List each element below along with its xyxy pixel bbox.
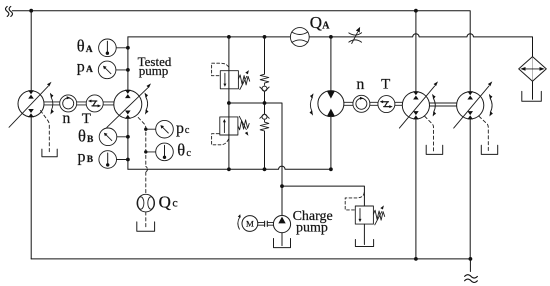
shaft: M to charge pump with coupling (258, 221, 274, 226)
svg-text:pump: pump (296, 220, 328, 235)
wire: tested pump bottom port vertical down to B-line corner (127, 118, 129, 169)
node: pA tap (126, 68, 130, 72)
control arc: tested pump over-center arc (145, 93, 149, 115)
wire: B-side return line y=169.3 with hop over charge line (128, 166, 331, 169)
wire: charge cross line y=103 (229, 103, 282, 216)
pump P4 (right pair, variable over-center) (454, 81, 493, 128)
svg-text:T: T (82, 111, 91, 127)
svg-text:c: c (172, 196, 177, 210)
svg-text:B: B (87, 155, 94, 165)
check valve CV1 (makeup to A line) (260, 74, 269, 91)
node: bottom line / pump B vertical (469, 257, 473, 261)
node: B line / relief2 (227, 167, 231, 171)
svg-text:M: M (246, 219, 254, 229)
tank: charge relief tank (355, 240, 373, 247)
gauge pressure pA (98, 61, 128, 79)
node: pB tap (126, 158, 130, 162)
wire: left vertical from loading pump to bottom line (30, 117, 32, 259)
svg-text:B: B (87, 135, 94, 145)
tank: Qc drain tank (137, 222, 155, 231)
sensor T (torque) right (378, 96, 395, 113)
node: B line / check2 (263, 167, 267, 171)
wire: cooler branch vertical (532, 81, 534, 99)
svg-text:p: p (176, 120, 184, 137)
gauge pressure θB (99, 128, 128, 146)
drain wire: loading pump case drain (dashed) (41, 111, 50, 154)
svg-text:Q: Q (310, 13, 322, 32)
wire: bottom return line y=258.9 (31, 258, 470, 260)
wire: right pump A vertical (top & bottom) (415, 11, 417, 259)
tank: pump P4 drain tank (481, 145, 497, 154)
relief valve RV2 (B-side cross-port relief) (220, 116, 249, 135)
node: pC tap (144, 128, 147, 131)
svg-text:c: c (185, 125, 190, 136)
svg-text:θ: θ (177, 141, 185, 160)
svg-text:A: A (322, 21, 330, 32)
drain wire: pump P4 (dashed) (479, 116, 488, 152)
node: top line / left vertical junction (29, 9, 33, 13)
svg-text:Q: Q (159, 192, 171, 211)
wire: second (A-side) line y=36.9 from tested-pump corner to cooler corner with hops (128, 34, 533, 57)
node: relief line / cross line (227, 101, 231, 105)
pump P5 charge pump (273, 216, 290, 246)
wire: right pump B vertical (bottom) (469, 119, 471, 259)
wire: motor top vertical (330, 37, 332, 91)
svg-text:p: p (78, 148, 86, 165)
shaft: loading pump to sensors to tested pump (double line) (44, 102, 114, 105)
wire: left vertical from top line to loading pump (30, 11, 32, 91)
pump P1 loading pump (variable, over-center) (9, 82, 54, 128)
tank: charge pump suction tank (274, 239, 291, 248)
cooler / heat exchanger (519, 57, 547, 82)
continuation squiggle top-left (6, 6, 13, 16)
node: θA tap (126, 46, 130, 50)
sensor n (speed) left (60, 95, 77, 112)
svg-text:n: n (356, 76, 364, 93)
node: charge vertical / charge-relief tap (280, 184, 284, 188)
svg-text:c: c (186, 148, 191, 159)
node: bottom line / pump A vertical (414, 257, 418, 261)
node: B line / motor bottom (329, 167, 333, 171)
wire: check branch vertical x=264.5 (broken at ball symbols) (264, 37, 266, 169)
wire: tested pump top port vertical (127, 37, 129, 91)
pump P3 (right pair, variable over-center) (399, 81, 438, 128)
pilot wire RV1 (dashed) (212, 63, 229, 75)
node: θB tap (126, 135, 130, 139)
svg-text:θ: θ (77, 36, 85, 55)
sensor n (speed) right (353, 95, 370, 112)
wire: relief branch vertical x=228.9 (228, 37, 230, 169)
node: second line / check branch (263, 35, 267, 39)
node: second line / relief branch (227, 35, 231, 39)
svg-text:T: T (381, 77, 390, 93)
relief valve RV1 (A-side cross-port relief) (220, 70, 249, 89)
gauge thermometer pB (99, 151, 128, 169)
node: θC tap (144, 150, 147, 153)
pump P2 tested pump (variable, over-center) (107, 83, 151, 127)
svg-text:p: p (77, 58, 85, 75)
electric motor M (charge pump drive) (238, 214, 258, 231)
tank: cooler outlet tank (522, 91, 542, 101)
throttle valve (variable restrictor) (349, 27, 362, 44)
svg-text:n: n (62, 110, 70, 127)
flow meter Qc (137, 194, 155, 212)
tank: pump P3 drain tank (426, 145, 443, 154)
pilot wire RV3 (dashed) (345, 193, 364, 210)
wire: RV3 to tank (363, 224, 365, 244)
svg-text:A: A (86, 45, 93, 55)
svg-text:pump: pump (139, 63, 169, 78)
drain wire: tested pump case drain (dashed) to flow meter Qc (138, 118, 147, 230)
drain wire: pump P3 (dashed) (425, 116, 434, 152)
sensor T (torque) left (86, 95, 103, 112)
gauge thermometer θC on drain (146, 143, 174, 161)
motor M1 (fixed displacement, bidirectional) (310, 91, 344, 117)
gauge pressure pC on drain (146, 120, 174, 138)
continuation squiggle bottom-right (465, 275, 478, 283)
tank: loading pump drain tank (42, 149, 57, 157)
shaft: motor to sensors to pump A (double line) (344, 102, 457, 106)
check valve CV2 (makeup to B line) (260, 114, 269, 131)
wire: charge relief feed line y=186.1 (282, 186, 364, 206)
wire: top supply line y=10.7 (12, 11, 470, 92)
node: top line / right pump A vertical junction (414, 9, 418, 13)
wire: pump B stub below bottom line (469, 259, 471, 272)
relief valve RV3 (charge relief) (355, 205, 384, 224)
node: second line / motor branch (329, 35, 333, 39)
flow meter QA (290, 28, 309, 47)
pilot wire RV2 (dashed) (212, 134, 229, 145)
node: check line / cross line (263, 101, 267, 105)
gauge thermometer θA (99, 39, 128, 57)
svg-text:A: A (86, 65, 93, 75)
wire: motor bottom vertical (330, 117, 332, 169)
svg-text:θ: θ (78, 126, 86, 145)
